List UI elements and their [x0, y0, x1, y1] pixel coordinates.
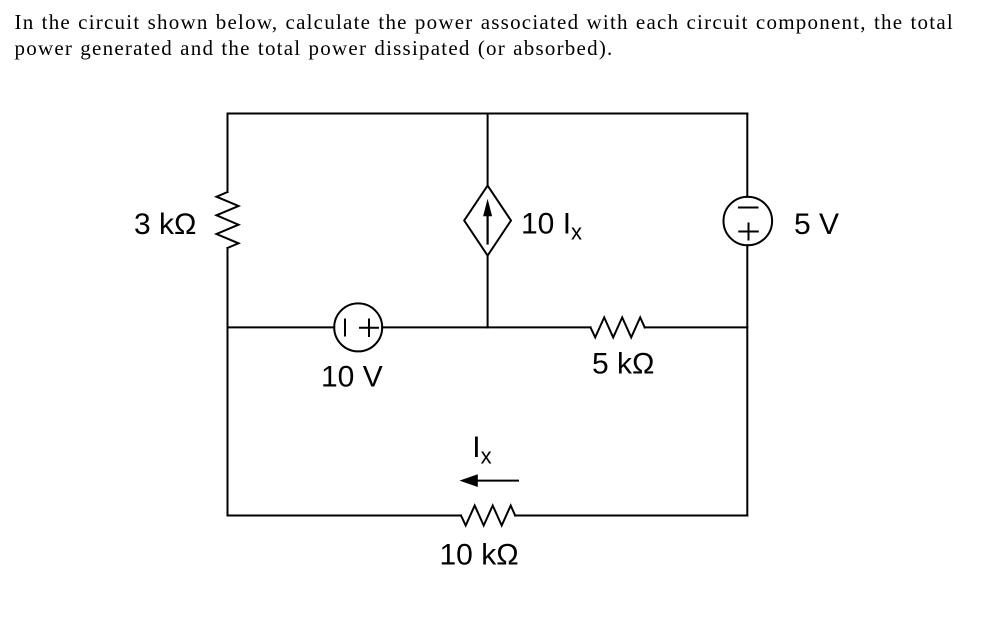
- wire middle branch lower: [487, 256, 489, 328]
- wire bottom right: [515, 515, 747, 517]
- wire left upper: [227, 114, 229, 193]
- minus sign of 10V (rotated bar): [344, 320, 346, 336]
- wire right middle: [746, 245, 748, 515]
- svg-text:10 kΩ: 10 kΩ: [440, 539, 519, 572]
- svg-text:Ix: Ix: [472, 431, 491, 469]
- wire right upper: [746, 114, 748, 197]
- dependent current source 10Ix (diamond): [464, 186, 511, 256]
- svg-text:5 V: 5 V: [794, 208, 839, 241]
- arrow inside current source: [487, 212, 489, 244]
- plus sign of 10V: [360, 327, 378, 329]
- svg-text:10 V: 10 V: [321, 361, 383, 394]
- svg-text:5 kΩ: 5 kΩ: [592, 348, 654, 381]
- resistor R 5k (horizontal zigzag): [591, 317, 645, 337]
- wire middle branch upper: [487, 114, 489, 186]
- voltage source V 10V (circle): [334, 303, 382, 351]
- plus sign of 5V: [739, 231, 758, 233]
- wire bottom left: [228, 515, 462, 517]
- resistor R 10k (horizontal zigzag): [461, 506, 515, 526]
- minus sign of 5V: [739, 207, 758, 209]
- arrow Ix (pointing left): [473, 480, 518, 482]
- wire middle row center: [382, 326, 590, 328]
- wire middle row right: [645, 326, 748, 328]
- wire middle row left: [228, 326, 335, 328]
- voltage source V 5V (circle): [724, 197, 773, 246]
- problem statement text: [15, 9, 975, 61]
- wire left lower: [227, 248, 229, 516]
- resistor R 3k (vertical zigzag): [217, 192, 239, 248]
- svg-text:10 Ix: 10 Ix: [521, 208, 582, 245]
- svg-text:3 kΩ: 3 kΩ: [134, 208, 196, 241]
- wire top (node A-B across top): [228, 113, 748, 115]
